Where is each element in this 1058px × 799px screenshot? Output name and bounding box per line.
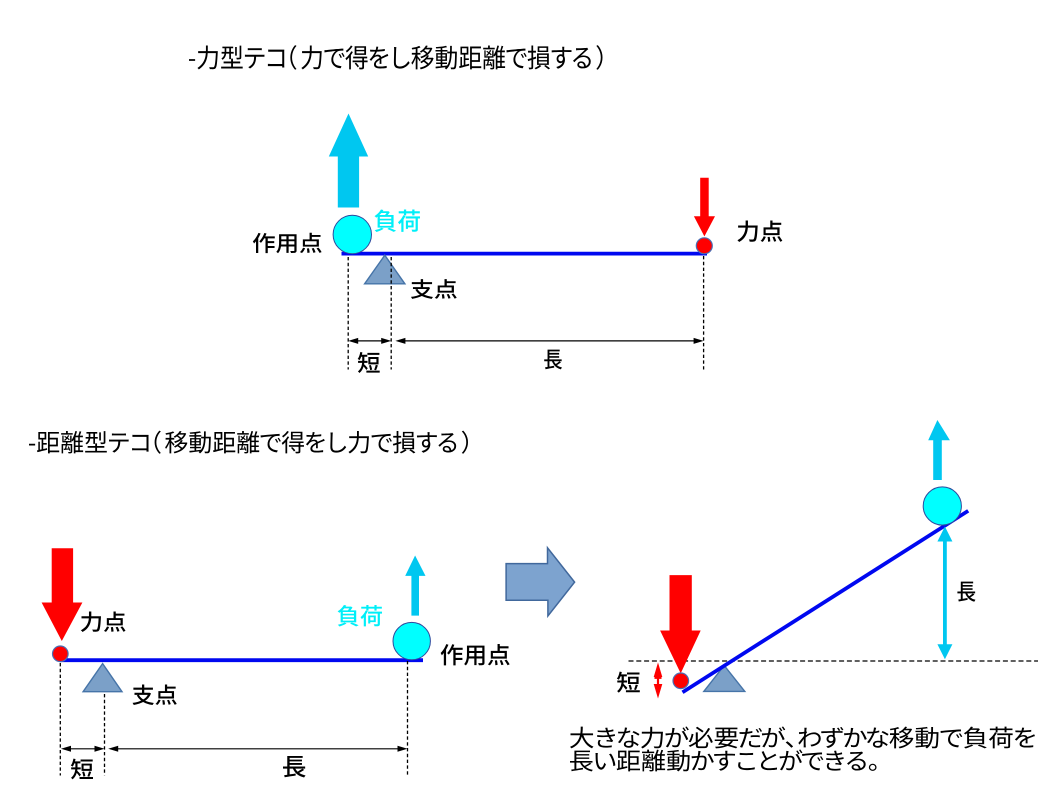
label: short (tan) bbox=[358, 352, 380, 373]
fulcrum triangle (diagram 3) bbox=[704, 666, 745, 692]
label: short d3 bbox=[617, 672, 640, 693]
big right-pointing arrow bbox=[506, 548, 574, 616]
caption line 1 bbox=[570, 726, 1035, 748]
fulcrum triangle (diagram 1) bbox=[365, 255, 405, 284]
fulcrum triangle (diagram 2) bbox=[83, 664, 122, 692]
label: long d3 bbox=[957, 582, 975, 602]
label: fulcrum (shiten) bbox=[411, 279, 457, 299]
label: short d2 bbox=[71, 759, 93, 780]
label: fulcrum (shiten) d2 bbox=[132, 685, 176, 705]
label: point of action d2 bbox=[441, 644, 510, 665]
title: force-type lever bbox=[189, 45, 603, 70]
label: point of action (sayouten) bbox=[253, 233, 322, 253]
caption line 2 bbox=[570, 749, 877, 771]
lever beam (diagram 2) bbox=[60, 658, 423, 662]
label: long d2 bbox=[283, 756, 306, 777]
effort point dot (diagram 2) bbox=[53, 646, 69, 662]
cyan load arrow up (diagram 3) bbox=[928, 420, 950, 480]
red effort arrow down (diagram 3) bbox=[660, 575, 701, 673]
effort point dot (diagram 1) bbox=[696, 238, 712, 254]
lever beam (diagram 1) bbox=[342, 252, 708, 256]
red effort arrow down (diagram 2) bbox=[42, 548, 83, 641]
cyan double arrow long-distance (diagram 3) bbox=[943, 538, 947, 648]
label: effort point (rikiten) bbox=[737, 221, 782, 242]
load circle (diagram 2) bbox=[393, 622, 430, 659]
label: load (fuka) d2 bbox=[338, 605, 382, 626]
load circle (diagram 3) bbox=[923, 487, 961, 525]
label: effort point (rikiten) d2 bbox=[81, 612, 126, 632]
label: load (fuka) bbox=[375, 210, 421, 232]
dimension arrow short (diagram 1) bbox=[357, 340, 383, 342]
cyan load arrow up (diagram 1) bbox=[329, 114, 368, 208]
effort point dot (diagram 3) bbox=[673, 673, 689, 689]
dimension arrow long (diagram 1) bbox=[404, 340, 695, 342]
title: distance-type lever bbox=[29, 431, 468, 454]
dimension arrow long (diagram 2) bbox=[117, 748, 399, 750]
small red double arrow short-distance (diagram 3) bbox=[657, 668, 659, 693]
red effort arrow down (diagram 1) bbox=[694, 178, 715, 237]
label: long (chou) bbox=[544, 350, 562, 370]
dashed extension lines (diagram 2) bbox=[59, 663, 61, 776]
dimension arrow short (diagram 2) bbox=[70, 748, 97, 750]
dashed extension lines (diagram 1) bbox=[347, 257, 349, 370]
tilted lever beam (diagram 3) bbox=[683, 511, 969, 693]
dashed ground reference line (diagram 3) bbox=[629, 660, 1039, 662]
cyan load arrow up (diagram 2) bbox=[405, 556, 425, 616]
load circle (diagram 1) bbox=[333, 215, 371, 253]
